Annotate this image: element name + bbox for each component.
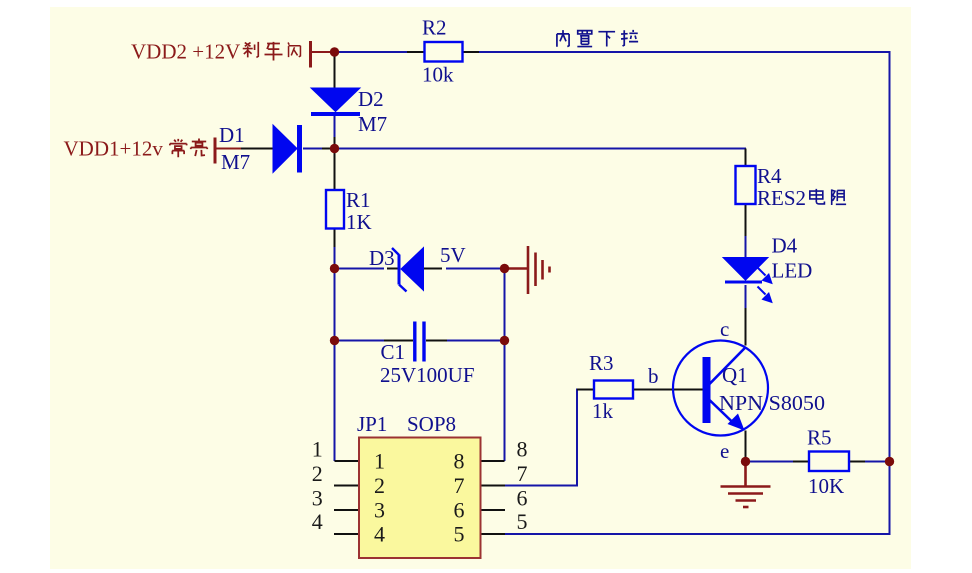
svg-text:3: 3 — [374, 498, 385, 523]
pin Q1 base horizontal — [633, 389, 703, 391]
resistor R4 — [736, 166, 756, 204]
IC JP1 SOP8 box — [359, 438, 481, 559]
svg-text:5: 5 — [517, 509, 528, 534]
pin JP1-3 stub — [334, 509, 359, 511]
wire R4 branch down from VDD1 rail to R4 top / D4 segments — [745, 235, 747, 258]
pin R2 right — [463, 51, 479, 53]
svg-text:8: 8 — [454, 449, 465, 474]
svg-text:R4: R4 — [757, 164, 782, 188]
svg-text:b: b — [648, 364, 659, 388]
svg-text:5V: 5V — [440, 243, 466, 267]
wire R5 right pin to right-side vertical — [864, 461, 890, 463]
pin JP1-2 stub — [334, 485, 359, 487]
resistor R3 — [594, 381, 633, 399]
pin R4 top — [745, 149, 747, 167]
svg-text:e: e — [720, 439, 729, 463]
pin JP1-4 stub — [334, 533, 359, 535]
svg-text:25V100UF: 25V100UF — [380, 363, 475, 387]
svg-text:c: c — [720, 317, 729, 341]
pin R1 top — [334, 153, 336, 190]
pin stub left of VDD1 junction — [322, 148, 331, 150]
diode D2 (pointing down) — [311, 88, 360, 114]
wire VDD1 rail from D1 cathode to junction and on to R4 corner — [303, 148, 746, 150]
pin R2 left — [407, 51, 425, 53]
CJK: 常亮 — [170, 139, 207, 158]
pin R4 bottom — [745, 204, 747, 236]
node VDD1-junction — [330, 144, 339, 153]
svg-text:1: 1 — [374, 449, 385, 474]
net label 内置下拉 (dark blue) — [557, 30, 638, 47]
node R5 right — [885, 457, 894, 466]
wire pin7 to R3: right then up — [505, 390, 594, 486]
node C1 left — [330, 336, 339, 345]
svg-text:SOP8: SOP8 — [407, 412, 456, 436]
svg-text:M7: M7 — [221, 150, 250, 174]
pin R5 left — [793, 461, 809, 463]
svg-text:VDD2 +12V: VDD2 +12V — [131, 39, 240, 63]
svg-text:NPN S8050: NPN S8050 — [719, 391, 825, 415]
wire top rail VDD2 net: junction to R2 left pin — [335, 51, 410, 53]
pin D3 cathode-side — [424, 268, 442, 270]
svg-text:1: 1 — [312, 437, 323, 462]
svg-text:LED: LED — [772, 259, 813, 283]
port wire VDD2 — [311, 51, 332, 53]
svg-text:7: 7 — [517, 461, 528, 486]
svg-text:4: 4 — [312, 509, 323, 534]
wire emitter node to R5 left pin — [746, 461, 795, 463]
pin R1 bottom — [334, 229, 336, 248]
pin JP1-7 stub — [481, 485, 506, 487]
wire vertical x=334.5 from VDD1 junction to R1 top pin — [334, 149, 336, 159]
CJK: 刹车闪 — [243, 42, 301, 61]
zener diode D3 (pointing left, cathode bar with wings) — [392, 248, 424, 292]
capacitor C1 — [415, 322, 424, 362]
wire C1 row right: C1 right pin to vertical — [446, 340, 505, 342]
wire below D4 to Q1 collector pin — [745, 285, 747, 309]
svg-text:D4: D4 — [772, 234, 798, 258]
svg-text:10K: 10K — [808, 474, 844, 498]
wire vertical x=334.5 R1 bottom pin to D3 node — [334, 246, 336, 269]
svg-text:M7: M7 — [358, 112, 387, 136]
resistor R2 — [425, 42, 463, 62]
wire vertical main x=334.5: below D2 to VDD1 junction — [334, 116, 336, 149]
wire vertical x=334.5 D3 node to C1 node to IC pin1 — [334, 269, 336, 462]
wire C1 row left: node to C1 left pin — [335, 340, 386, 342]
svg-text:R5: R5 — [807, 426, 832, 450]
svg-text:D1: D1 — [219, 123, 245, 147]
svg-text:C1: C1 — [381, 340, 406, 364]
svg-text:D3: D3 — [369, 246, 395, 270]
port bar VDD1 — [214, 138, 217, 164]
pin JP1-8 stub — [481, 460, 505, 462]
svg-text:R3: R3 — [589, 351, 614, 375]
wire D3 cathode side to 5V node — [446, 268, 505, 270]
svg-text:3: 3 — [312, 486, 323, 511]
svg-text:5: 5 — [454, 522, 465, 547]
svg-text:1k: 1k — [592, 399, 614, 423]
port bar VDD2 — [309, 41, 312, 68]
svg-text:R1: R1 — [346, 188, 371, 212]
LED D4 (pointing down, with arrows) — [723, 258, 772, 303]
svg-text:D2: D2 — [358, 87, 384, 111]
port wire VDD1 — [216, 148, 241, 150]
svg-text:Q1: Q1 — [722, 363, 748, 387]
ground (sideways) at 5V node — [505, 246, 550, 294]
node 5V — [500, 264, 509, 273]
svg-text:6: 6 — [454, 498, 465, 523]
svg-text:R2: R2 — [422, 16, 447, 40]
CJK: 电阻 after RES2 — [810, 189, 846, 205]
pin C1 left — [384, 340, 413, 342]
pin stub above VDD1 junction — [334, 137, 336, 145]
pin JP1-5 stub — [481, 533, 506, 535]
node C1 right — [500, 336, 509, 345]
pin D3 anode-side — [387, 268, 400, 270]
resistor R1 — [326, 190, 344, 229]
svg-text:1K: 1K — [346, 210, 372, 234]
ground at emitter / R5 node — [721, 462, 771, 508]
svg-text:6: 6 — [517, 486, 528, 511]
node VDD2-junction — [330, 47, 339, 56]
svg-text:2: 2 — [312, 461, 323, 486]
node emitter — [741, 457, 750, 466]
pin R3 left — [577, 389, 594, 391]
diode D1 (pointing right) — [273, 125, 300, 173]
resistor R5 — [809, 452, 849, 472]
svg-text:RES2: RES2 — [757, 186, 806, 210]
pin R5 right — [849, 461, 865, 463]
pin D1 anode — [240, 148, 273, 150]
node D3 left — [330, 264, 339, 273]
wire R2 right to top-right corner and down right side to bottom-right corner and left to pin5 — [478, 52, 890, 534]
svg-text:4: 4 — [374, 522, 385, 547]
svg-text:JP1: JP1 — [357, 412, 387, 436]
wire vertical x=504.5 from 5V node down to C1 right node to IC pin8 — [504, 269, 506, 462]
svg-text:8: 8 — [517, 437, 528, 462]
svg-text:VDD1+12v: VDD1+12v — [64, 137, 164, 161]
pin JP1-1 stub — [335, 460, 360, 462]
svg-text:7: 7 — [454, 473, 465, 498]
pin Q1 collector vertical — [745, 308, 747, 346]
transistor Q1 NPN — [673, 341, 768, 436]
pin JP1-6 stub — [481, 509, 506, 511]
pin Q1 emitter vertical — [745, 431, 747, 462]
pin D2 top (junction to triangle) — [334, 54, 336, 88]
svg-text:10k: 10k — [422, 63, 454, 87]
pin C1 right — [426, 340, 447, 342]
svg-text:2: 2 — [374, 473, 385, 498]
wire D3 row: node to D3 anode pin — [335, 268, 385, 270]
IC pin numbers inside (black) — [312, 437, 528, 547]
